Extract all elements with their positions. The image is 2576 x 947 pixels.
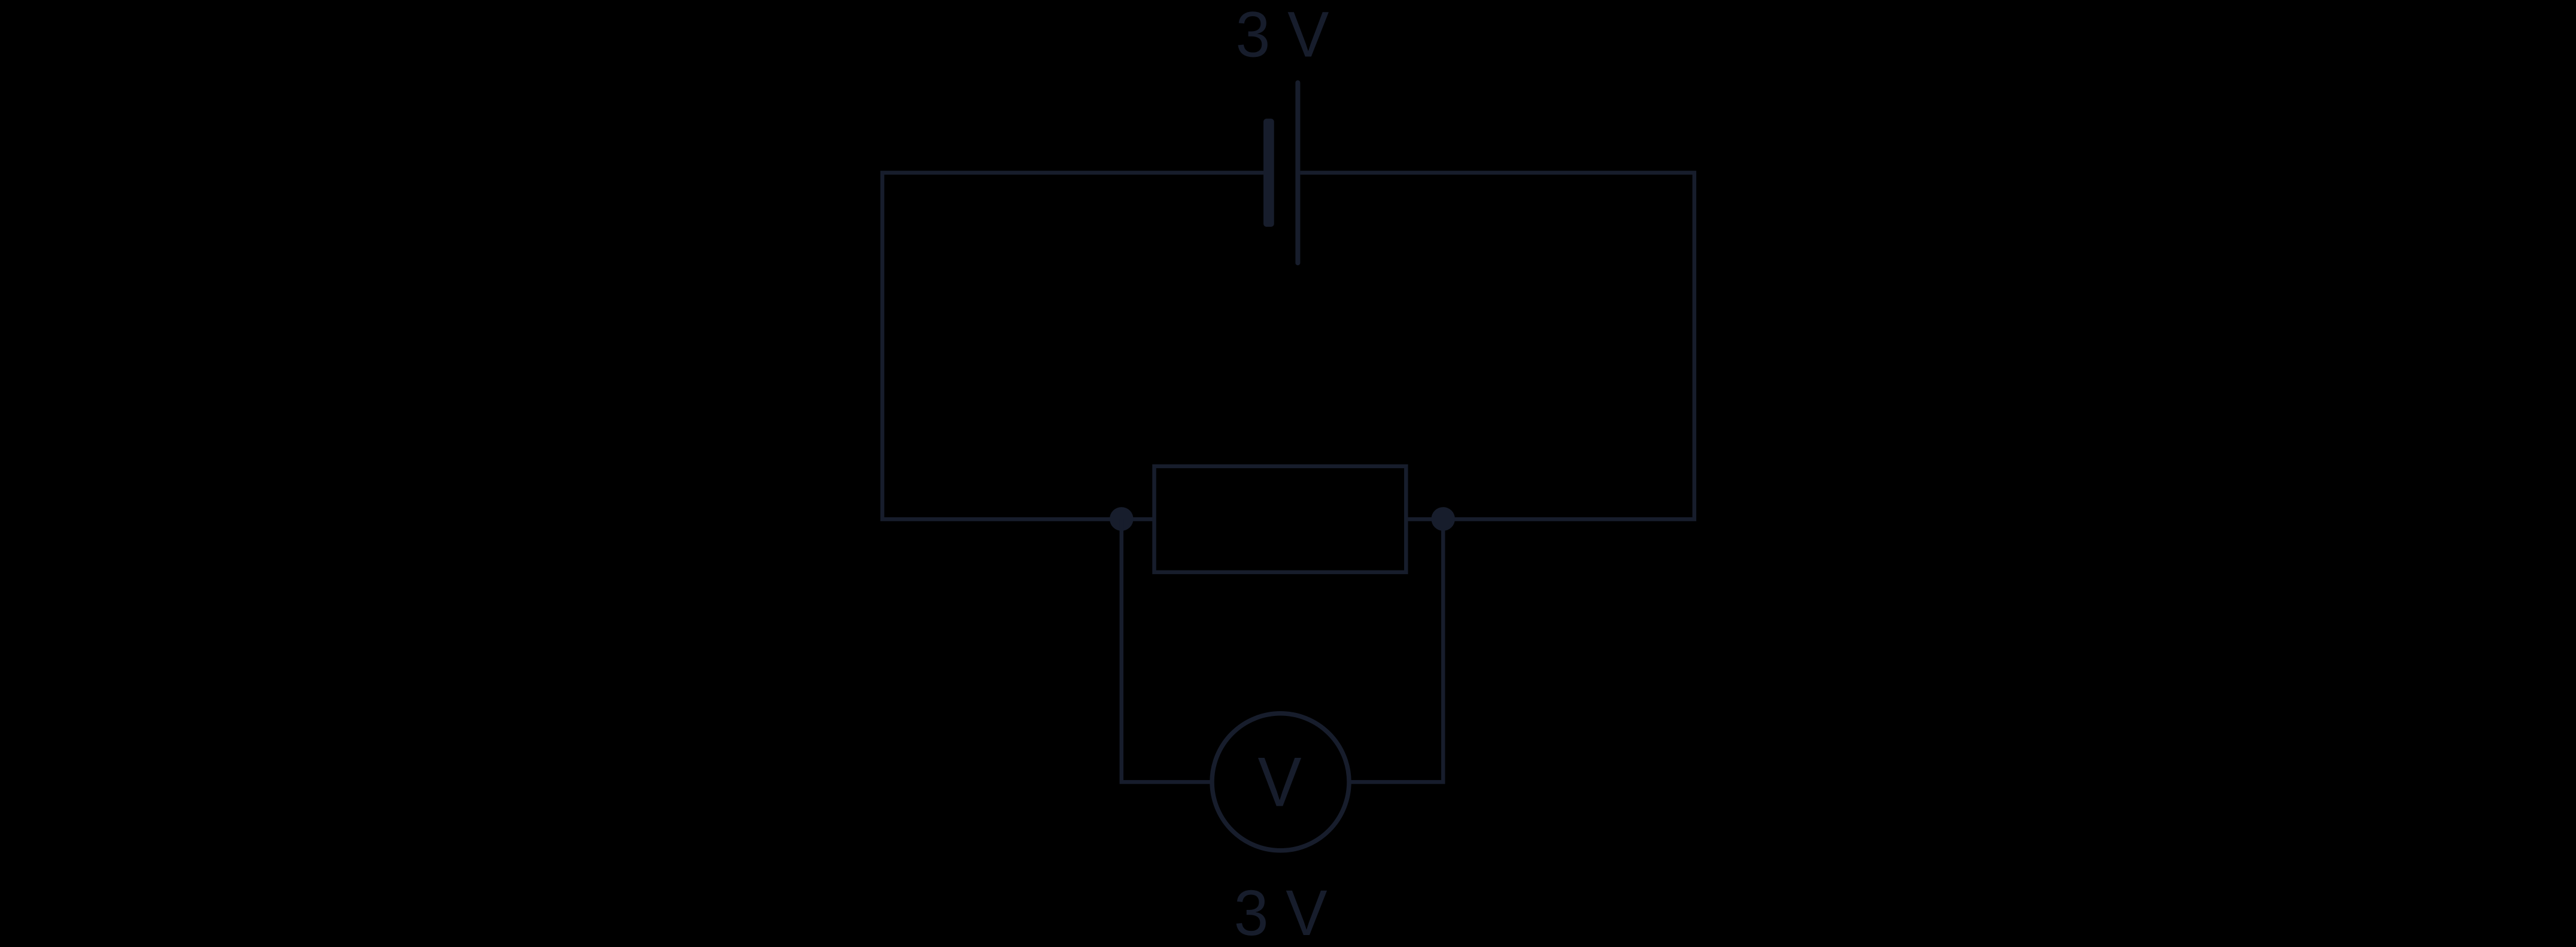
svg-text:3 V: 3 V: [1234, 876, 1328, 947]
battery cell B1 negative plate (short thick bar): [1263, 119, 1274, 227]
wire voltmeter branch right (voltmeter up to node B): [1348, 519, 1444, 782]
node B junction dot (right): [1431, 507, 1455, 531]
svg-text:V: V: [1258, 742, 1302, 821]
wire top-right segment with right vertical of outer loop: [1300, 173, 1694, 520]
node A junction dot (left): [1110, 507, 1134, 531]
resistor R1 (box symbol): [1155, 466, 1407, 572]
wire voltmeter branch left (down from node A to voltmeter): [1122, 519, 1213, 782]
voltmeter M1 circle: [1212, 714, 1349, 851]
wire top-left segment with left vertical of outer loop: [882, 173, 1263, 520]
svg-text:3 V: 3 V: [1236, 0, 1329, 71]
battery cell B1 positive plate (long thin bar): [1295, 80, 1300, 265]
